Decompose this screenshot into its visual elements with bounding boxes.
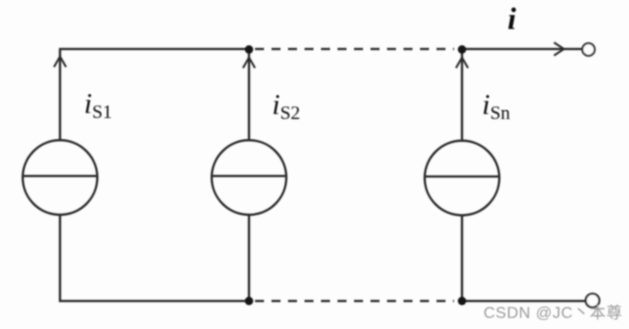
wire branch1 vertical bottom [59, 215, 61, 302]
arrowhead iS1 [54, 57, 66, 68]
wire branch2 vertical top [248, 52, 250, 140]
wire branch-n vertical top [461, 52, 463, 141]
current source iSn bar [425, 175, 500, 177]
wire branch1 vertical top [59, 49, 61, 140]
current source iSn circle [425, 141, 500, 216]
arrowhead output current i [554, 43, 564, 56]
wire top-right to output terminal [462, 48, 582, 50]
svg-text:iSn: iSn [482, 89, 511, 124]
current source iS1 bar [23, 175, 98, 177]
svg-text:i: i [508, 1, 517, 36]
node bottom right [458, 297, 466, 305]
svg-text:CSDN @JC丶本尊: CSDN @JC丶本尊 [484, 304, 623, 322]
wire bottom-left horizontal [59, 300, 249, 302]
node top right [458, 45, 466, 53]
arrowhead iSn [456, 58, 468, 69]
wire bottom dashed segment [255, 300, 454, 302]
arrowhead iS2 [243, 58, 255, 69]
wire top dashed segment [255, 48, 454, 50]
wire branch2 vertical bottom [248, 215, 250, 301]
terminal bottom-right [586, 294, 600, 308]
wire bottom-right to terminal [462, 300, 586, 302]
wire branch-n vertical bottom [461, 215, 463, 301]
node top middle [245, 45, 253, 53]
node bottom middle [245, 297, 253, 305]
wire top-left horizontal [59, 48, 249, 50]
current source iS2 bar [212, 175, 287, 177]
svg-text:iS2: iS2 [272, 89, 300, 124]
current source iS1 circle [23, 140, 98, 215]
terminal top-right [582, 43, 594, 55]
current source iS2 circle [212, 140, 287, 215]
svg-text:iS1: iS1 [84, 88, 112, 123]
